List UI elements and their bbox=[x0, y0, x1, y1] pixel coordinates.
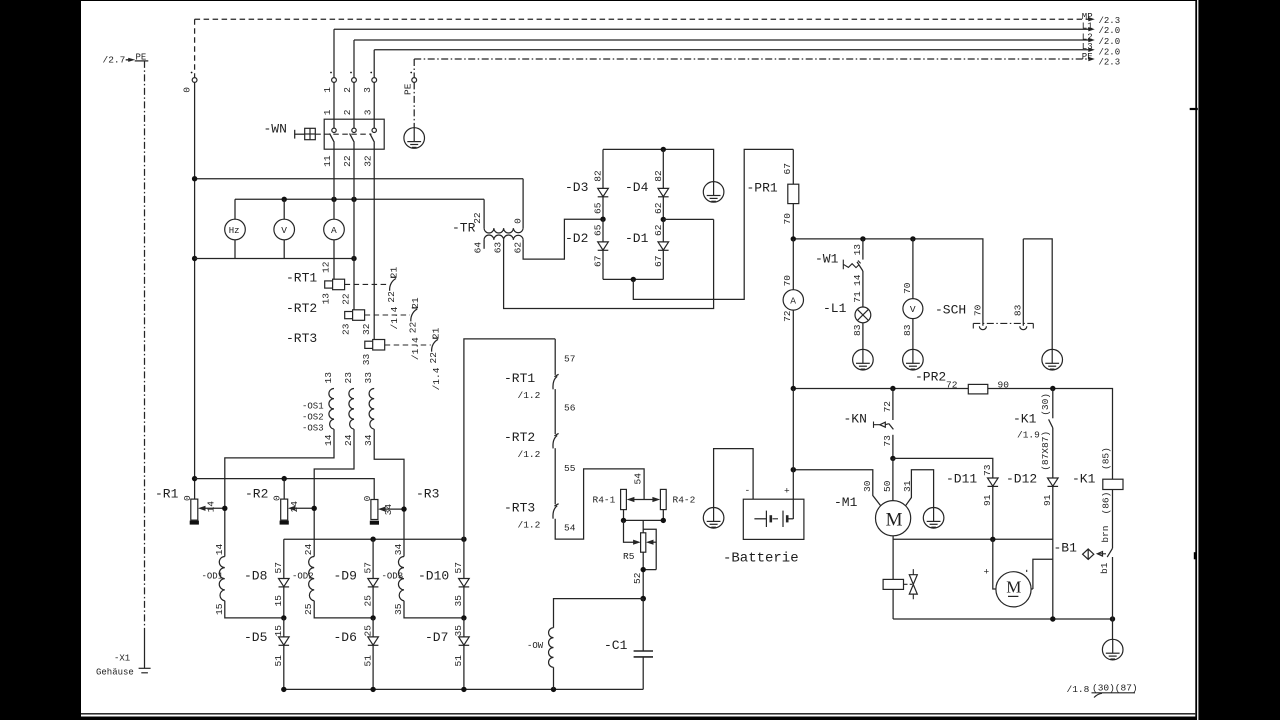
svg-text:-RT3: -RT3 bbox=[504, 501, 535, 516]
diode D1 bbox=[625, 219, 669, 279]
svg-text:62: 62 bbox=[513, 242, 524, 254]
ground earth circle below V bbox=[903, 349, 924, 370]
ground earth circle at bridge bbox=[703, 182, 724, 203]
svg-text:57: 57 bbox=[362, 562, 373, 573]
svg-text:L1: L1 bbox=[1082, 22, 1093, 32]
svg-text:-OS1: -OS1 bbox=[302, 402, 324, 412]
terminal 1 bbox=[322, 72, 336, 93]
svg-text:1: 1 bbox=[322, 109, 333, 115]
node PE label right bbox=[1082, 52, 1120, 67]
terminal 3 bbox=[362, 72, 376, 93]
lamp L1 bbox=[823, 301, 871, 350]
svg-text:25: 25 bbox=[362, 625, 373, 637]
svg-text:90: 90 bbox=[998, 380, 1010, 391]
svg-text:-RT2: -RT2 bbox=[286, 301, 317, 316]
svg-text:83: 83 bbox=[902, 324, 913, 336]
svg-text:-WN: -WN bbox=[264, 122, 287, 137]
svg-text:91: 91 bbox=[982, 494, 993, 506]
relay coil K1 bbox=[1072, 447, 1123, 548]
svg-text:Hz: Hz bbox=[229, 226, 240, 236]
svg-text:83: 83 bbox=[1013, 304, 1024, 316]
svg-text:62: 62 bbox=[653, 202, 664, 214]
svg-text:/1.2: /1.2 bbox=[518, 520, 541, 531]
meter V (right block) bbox=[902, 239, 923, 350]
relay RT1 thermal element bbox=[286, 261, 345, 304]
diode D8 bbox=[244, 539, 289, 620]
diode D10 bbox=[418, 539, 469, 620]
svg-text:-D5: -D5 bbox=[244, 630, 267, 645]
svg-text:/1.4: /1.4 bbox=[431, 367, 442, 390]
svg-text:Gehäuse: Gehäuse bbox=[96, 668, 134, 678]
diode D7 bbox=[425, 618, 469, 690]
node L2 label bbox=[1082, 32, 1120, 46]
svg-text:1: 1 bbox=[322, 87, 333, 93]
svg-text:-W1: -W1 bbox=[815, 252, 839, 267]
svg-text:-D12: -D12 bbox=[1006, 471, 1037, 486]
svg-text:/2.0: /2.0 bbox=[1099, 47, 1121, 57]
node L3 label bbox=[1082, 42, 1120, 57]
svg-text:PE: PE bbox=[403, 83, 414, 95]
svg-text:/1.4: /1.4 bbox=[389, 306, 400, 329]
svg-text:/2.0: /2.0 bbox=[1099, 37, 1121, 47]
wire RT contact frame top + left bbox=[464, 339, 555, 539]
svg-text:22: 22 bbox=[407, 321, 418, 333]
wire OD3 bottom to D10 column bbox=[404, 601, 464, 618]
wire meters bottom bus bbox=[195, 258, 354, 260]
svg-text:-PR1: -PR1 bbox=[747, 181, 778, 196]
wire neutral horizontal to TR primary right bbox=[195, 178, 523, 180]
wire node 54 loop to R4 bbox=[555, 469, 644, 539]
svg-text:24: 24 bbox=[289, 501, 300, 513]
svg-text:54: 54 bbox=[564, 523, 576, 534]
svg-text:-D7: -D7 bbox=[425, 630, 448, 645]
wire L3 bus bbox=[374, 48, 1095, 78]
contact RT2 main (NC chain) bbox=[504, 389, 576, 460]
svg-text:22: 22 bbox=[386, 291, 397, 303]
svg-text:35: 35 bbox=[393, 603, 404, 615]
node PE left /2.7 reference bbox=[103, 53, 149, 66]
svg-text:-RT1: -RT1 bbox=[504, 371, 535, 386]
svg-text:51: 51 bbox=[273, 655, 284, 667]
sensor B1 (level switch) bbox=[1054, 525, 1113, 619]
svg-text:/2.7: /2.7 bbox=[103, 55, 126, 66]
svg-text:15: 15 bbox=[214, 603, 225, 615]
diode D2 bbox=[565, 219, 608, 279]
svg-text:62: 62 bbox=[653, 224, 664, 236]
diode D3 bbox=[565, 149, 608, 222]
svg-text:82: 82 bbox=[653, 170, 664, 182]
diode D5 bbox=[244, 618, 289, 690]
svg-text:-KN: -KN bbox=[844, 412, 867, 427]
svg-text:35: 35 bbox=[453, 595, 464, 607]
wire L2 bus bbox=[354, 38, 1095, 78]
svg-text:73: 73 bbox=[882, 435, 893, 447]
svg-text:/2.3: /2.3 bbox=[1099, 16, 1121, 26]
svg-text:57: 57 bbox=[273, 562, 284, 573]
svg-text:23: 23 bbox=[343, 372, 354, 384]
resistor R1 (potentiometer) bbox=[155, 487, 228, 525]
svg-text:70: 70 bbox=[782, 213, 793, 225]
svg-text:64: 64 bbox=[473, 242, 484, 254]
svg-text:/1.8: /1.8 bbox=[1067, 684, 1090, 695]
svg-text:51: 51 bbox=[362, 655, 373, 667]
svg-text:L2: L2 bbox=[1082, 32, 1093, 42]
wire bottom rail 51 bbox=[284, 688, 643, 690]
svg-text:13: 13 bbox=[852, 244, 863, 256]
svg-text:13: 13 bbox=[323, 372, 334, 384]
svg-text:/2.0: /2.0 bbox=[1099, 26, 1121, 36]
wire OD1 bottom to D8 column bbox=[225, 601, 284, 618]
svg-text:V: V bbox=[910, 304, 916, 315]
capacitor C1 bbox=[604, 599, 653, 690]
svg-text:14: 14 bbox=[214, 543, 225, 555]
svg-text:A: A bbox=[331, 225, 337, 236]
svg-text:2: 2 bbox=[342, 87, 353, 93]
svg-text:-D1: -D1 bbox=[625, 231, 649, 246]
ground X1 Gehaeuse bbox=[96, 633, 151, 678]
node MP label bbox=[1082, 12, 1120, 26]
wire TR tap 63 to node 62 bbox=[504, 219, 714, 308]
inductor OD2 bbox=[292, 543, 314, 615]
svg-text:/2.3: /2.3 bbox=[1099, 58, 1121, 68]
svg-text:R4-2: R4-2 bbox=[673, 495, 696, 506]
svg-text:72: 72 bbox=[782, 310, 793, 322]
terminal 0 bbox=[182, 72, 198, 93]
wire OS1 to R1 wiper column bbox=[225, 429, 334, 556]
svg-text:22: 22 bbox=[341, 293, 352, 305]
svg-text:21: 21 bbox=[431, 327, 442, 339]
meter A (right block) bbox=[782, 239, 804, 389]
inductor OS1 bbox=[323, 372, 334, 446]
svg-text:33: 33 bbox=[361, 353, 372, 365]
svg-text:-C1: -C1 bbox=[604, 638, 628, 653]
svg-text:A: A bbox=[790, 295, 796, 306]
node OS labels bbox=[302, 402, 324, 434]
node /1.8 (30)(87) cross reference bbox=[1067, 683, 1138, 698]
svg-text:-SCH: -SCH bbox=[935, 303, 966, 318]
svg-text:70: 70 bbox=[902, 282, 913, 294]
node junction dots neutral bbox=[192, 176, 197, 181]
svg-text:-R1: -R1 bbox=[155, 487, 179, 502]
svg-text:70: 70 bbox=[972, 304, 983, 316]
svg-text:91: 91 bbox=[1042, 494, 1053, 506]
wire R4 wiper bar with arrows bbox=[627, 497, 661, 502]
svg-text:24: 24 bbox=[303, 543, 314, 555]
svg-text:34: 34 bbox=[393, 543, 404, 555]
svg-text:M: M bbox=[886, 510, 903, 531]
svg-text:-RT3: -RT3 bbox=[286, 331, 317, 346]
svg-text:15: 15 bbox=[273, 595, 284, 607]
wire OS3 to R3 wiper column bbox=[374, 429, 404, 556]
contact RT1 auxiliary (dashed link) bbox=[345, 266, 400, 329]
resistor R4-2 bbox=[660, 489, 695, 509]
svg-text:52: 52 bbox=[632, 572, 643, 584]
svg-text:22: 22 bbox=[342, 155, 353, 167]
svg-text:-D2: -D2 bbox=[565, 231, 588, 246]
svg-text:22: 22 bbox=[472, 212, 483, 224]
inductor OS2 bbox=[343, 372, 354, 446]
svg-text:-R2: -R2 bbox=[245, 487, 268, 502]
ground earth circle below L1 bbox=[853, 349, 874, 370]
svg-text:-X1: -X1 bbox=[114, 654, 130, 664]
svg-text:50: 50 bbox=[882, 480, 893, 492]
svg-text:-D3: -D3 bbox=[565, 180, 588, 195]
resistor R3 (potentiometer) bbox=[362, 487, 440, 525]
contact RT1 main (NC chain) bbox=[504, 339, 575, 401]
svg-text:R4-1: R4-1 bbox=[593, 495, 616, 506]
connector SCH bbox=[935, 239, 1052, 350]
svg-text:67: 67 bbox=[593, 256, 604, 267]
svg-text:L3: L3 bbox=[1082, 42, 1093, 52]
svg-text:-L1: -L1 bbox=[823, 301, 847, 316]
svg-text:(85): (85) bbox=[1101, 447, 1112, 470]
svg-text:35: 35 bbox=[453, 625, 464, 637]
svg-text:/1.2: /1.2 bbox=[518, 449, 541, 460]
meter A (in phase 1) bbox=[324, 219, 345, 240]
diode D6 bbox=[334, 618, 379, 690]
wire meters top bus bbox=[235, 198, 484, 200]
svg-text:32: 32 bbox=[362, 155, 373, 167]
fuse PR1 bbox=[747, 149, 799, 239]
contact RT3 auxiliary (dashed link) bbox=[385, 327, 442, 390]
contact K1 (30/87) bbox=[1013, 389, 1053, 479]
meter Hz bbox=[225, 199, 246, 258]
wire diode top rail 57 bbox=[284, 538, 464, 540]
svg-text:PE: PE bbox=[1082, 52, 1093, 62]
wire MP bus (dashed, top) bbox=[195, 17, 1095, 78]
svg-text:/1.9: /1.9 bbox=[1017, 430, 1040, 441]
svg-text:83: 83 bbox=[852, 324, 863, 336]
svg-text:0: 0 bbox=[513, 218, 524, 224]
svg-text:25: 25 bbox=[362, 595, 373, 607]
svg-text:67: 67 bbox=[782, 163, 793, 174]
wire PE bus (dash-dot, top) bbox=[414, 57, 1095, 78]
svg-text:-PR2: -PR2 bbox=[915, 370, 946, 385]
wire L1 bus bbox=[334, 27, 1095, 78]
wire OS2 to R2 wiper column bbox=[314, 429, 354, 556]
wire bus 70 (right block top) bbox=[793, 239, 983, 326]
wire phase1 vertical bbox=[333, 82, 335, 279]
svg-text:34: 34 bbox=[363, 434, 374, 446]
svg-text:-R3: -R3 bbox=[416, 487, 439, 502]
wire R-top bus bbox=[195, 479, 375, 500]
svg-text:72: 72 bbox=[882, 401, 893, 413]
svg-text:-D10: -D10 bbox=[418, 569, 449, 584]
svg-text:23: 23 bbox=[341, 323, 352, 335]
fuse PR2 bbox=[915, 370, 1009, 394]
svg-text:R5: R5 bbox=[623, 551, 635, 562]
resistor R4-1 bbox=[593, 489, 627, 509]
svg-text:34: 34 bbox=[383, 504, 394, 516]
wire bottom rail right bbox=[893, 618, 1112, 620]
svg-text:-K1: -K1 bbox=[1072, 471, 1096, 486]
svg-text:-RT2: -RT2 bbox=[504, 430, 535, 445]
wire R4 bottoms rail bbox=[621, 510, 666, 524]
svg-text:3: 3 bbox=[362, 87, 373, 93]
svg-text:-RT1: -RT1 bbox=[286, 271, 317, 286]
wire bridge bottom + output to PR1 bbox=[603, 149, 793, 299]
diode D12 bbox=[1006, 471, 1058, 619]
node L1 label bbox=[1082, 22, 1120, 36]
wire phase2 vertical bbox=[353, 82, 355, 309]
svg-text:(30)(87): (30)(87) bbox=[1092, 683, 1138, 694]
svg-text:-D11: -D11 bbox=[946, 471, 977, 486]
svg-text:-D4: -D4 bbox=[625, 180, 649, 195]
svg-text:51: 51 bbox=[453, 655, 464, 667]
wire phase3 vertical bbox=[373, 82, 375, 339]
terminal 2 bbox=[342, 72, 356, 93]
svg-text:-OW: -OW bbox=[527, 641, 544, 651]
svg-text:-M1: -M1 bbox=[834, 495, 858, 510]
svg-text:11: 11 bbox=[322, 155, 333, 167]
contact RT2 auxiliary (dashed link) bbox=[365, 297, 422, 360]
svg-text:56: 56 bbox=[564, 403, 576, 414]
relay RT3 thermal element bbox=[286, 323, 385, 365]
diode D4 bbox=[625, 149, 669, 222]
wire node 52 junction bbox=[640, 596, 646, 602]
wire node 73/50 junction bbox=[890, 456, 895, 461]
svg-text:82: 82 bbox=[593, 170, 604, 182]
svg-text:0: 0 bbox=[182, 87, 193, 93]
svg-text:-: - bbox=[745, 485, 751, 496]
svg-text:32: 32 bbox=[361, 323, 372, 335]
wire OD2 bottom to D9 column bbox=[314, 601, 373, 618]
ground earth circle right of M1 bbox=[923, 508, 944, 529]
inductor OW bbox=[527, 628, 554, 690]
meter V bbox=[274, 199, 295, 258]
svg-text:25: 25 bbox=[303, 603, 314, 615]
svg-text:-OS2: -OS2 bbox=[302, 413, 324, 423]
svg-text:2: 2 bbox=[342, 109, 353, 115]
battery bbox=[714, 389, 804, 567]
wire TR tap 62 to node 65 bbox=[523, 219, 603, 259]
wire rail 30 (PR2 rail) bbox=[793, 389, 1112, 480]
svg-text:72: 72 bbox=[946, 380, 958, 391]
svg-text:15: 15 bbox=[273, 625, 284, 637]
svg-text:V: V bbox=[281, 225, 287, 236]
wire neutral 0 vertical bbox=[194, 82, 196, 499]
svg-text:/1.2: /1.2 bbox=[518, 390, 541, 401]
svg-text:24: 24 bbox=[343, 434, 354, 446]
svg-text:(86): (86) bbox=[1101, 492, 1112, 515]
terminal PE bbox=[403, 72, 417, 95]
svg-text:/1.4: /1.4 bbox=[410, 337, 421, 360]
transformer TR bbox=[452, 179, 524, 254]
ground earth circle right of SCH bbox=[1042, 349, 1063, 370]
svg-text:12: 12 bbox=[321, 261, 332, 273]
wire node 62 link bbox=[663, 218, 713, 220]
svg-text:M: M bbox=[1006, 578, 1021, 597]
svg-text:33: 33 bbox=[363, 372, 374, 384]
svg-text:(87X87): (87X87) bbox=[1040, 431, 1051, 471]
inductor OD1 bbox=[202, 543, 225, 615]
svg-text:57: 57 bbox=[564, 354, 575, 365]
svg-text:65: 65 bbox=[593, 202, 604, 214]
svg-text:-K1: -K1 bbox=[1013, 412, 1037, 427]
motor pump (small M) bbox=[984, 539, 1053, 607]
contact RT3 main (NC chain) bbox=[504, 448, 576, 533]
svg-text:+: + bbox=[984, 567, 990, 578]
switch WN (3-pole breaker) bbox=[264, 109, 385, 167]
ground earth circle bottom right bbox=[1102, 619, 1123, 660]
svg-text:30: 30 bbox=[862, 480, 873, 492]
svg-text:b1: b1 bbox=[1099, 562, 1110, 574]
svg-text:22: 22 bbox=[428, 352, 439, 364]
svg-text:21: 21 bbox=[410, 297, 421, 309]
svg-text:14: 14 bbox=[323, 434, 334, 446]
svg-text:63: 63 bbox=[492, 242, 503, 254]
svg-text:13: 13 bbox=[321, 293, 332, 305]
resistor R2 (potentiometer) bbox=[245, 479, 317, 525]
svg-text:brn: brn bbox=[1100, 525, 1111, 542]
svg-text:70: 70 bbox=[782, 275, 793, 287]
diode D11 bbox=[946, 464, 998, 539]
inductor OS3 bbox=[363, 372, 374, 446]
svg-text:MP: MP bbox=[1082, 12, 1093, 22]
svg-text:(30): (30) bbox=[1040, 393, 1051, 416]
svg-text:+: + bbox=[784, 486, 790, 497]
switch W1 bbox=[815, 239, 863, 307]
svg-text:21: 21 bbox=[389, 266, 400, 278]
motor M1 bbox=[793, 458, 933, 619]
valve Y1 (solenoid) bbox=[883, 569, 917, 599]
svg-text:14: 14 bbox=[205, 501, 216, 513]
ground earth circle at battery minus bbox=[703, 508, 724, 529]
svg-text:54: 54 bbox=[633, 473, 644, 485]
svg-text:3: 3 bbox=[362, 109, 373, 115]
ground earth circle at PE terminal bbox=[404, 82, 425, 148]
svg-text:73: 73 bbox=[982, 464, 993, 476]
wire rail 91 (freewheel) bbox=[893, 538, 1053, 540]
svg-text:71: 71 bbox=[852, 291, 863, 303]
svg-text:65: 65 bbox=[593, 224, 604, 236]
svg-text:-OS3: -OS3 bbox=[302, 424, 324, 434]
switch KN bbox=[844, 389, 894, 459]
wire bridge top rail bbox=[603, 149, 714, 181]
resistor R5 (preset) bbox=[623, 520, 656, 598]
svg-text:-D9: -D9 bbox=[334, 569, 357, 584]
inductor OD3 bbox=[382, 543, 405, 615]
svg-text:55: 55 bbox=[564, 463, 576, 474]
svg-text:57: 57 bbox=[453, 562, 464, 573]
relay RT2 thermal element bbox=[286, 293, 365, 335]
svg-text:-D8: -D8 bbox=[244, 569, 267, 584]
svg-text:-B1: -B1 bbox=[1054, 541, 1078, 556]
diode D9 bbox=[334, 539, 379, 620]
svg-text:14: 14 bbox=[852, 274, 863, 286]
wire PE vertical (dash-dot, left side) bbox=[144, 61, 146, 633]
svg-text:-Batterie: -Batterie bbox=[723, 551, 799, 567]
svg-text:67: 67 bbox=[653, 256, 664, 267]
svg-text:-D6: -D6 bbox=[334, 630, 357, 645]
